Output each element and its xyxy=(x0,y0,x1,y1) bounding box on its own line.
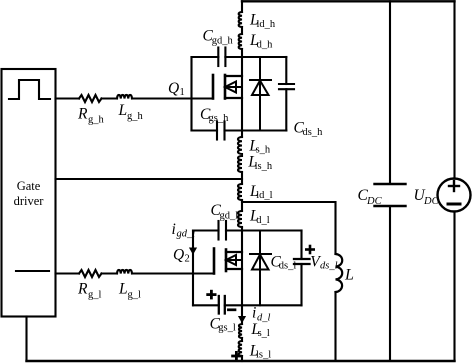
svg-text:Q: Q xyxy=(168,80,179,97)
inductor L (load) xyxy=(336,254,343,292)
svg-text:ls_l: ls_l xyxy=(256,349,271,360)
inductor L_s_l xyxy=(239,324,242,338)
svg-text:g_l: g_l xyxy=(128,290,142,301)
label C_gs_h xyxy=(200,106,229,124)
transistor Q2 (MOSFET) xyxy=(214,249,242,274)
label C_ds_h xyxy=(294,120,324,138)
gate driver box xyxy=(2,69,56,317)
label L_ls_l xyxy=(249,342,272,360)
label C_gd_h xyxy=(203,28,234,47)
Q1 drain-source vertical through cell xyxy=(241,57,243,131)
label U_DC xyxy=(414,187,440,207)
svg-text:R: R xyxy=(77,106,88,123)
capacitor C_gs_h xyxy=(217,122,225,140)
label L_d_h xyxy=(249,32,273,50)
svg-text:d_l: d_l xyxy=(256,215,270,226)
svg-text:ds_l: ds_l xyxy=(320,260,338,271)
inductor L_ls_l xyxy=(239,341,242,356)
label i_gd_l xyxy=(172,221,196,240)
inductor L_ls_h xyxy=(238,156,242,172)
label C_gs_l xyxy=(210,316,236,334)
label Q1 xyxy=(168,80,185,98)
low-level line symbol (low-side gate signal) xyxy=(16,270,49,272)
pulse waveform symbol (high-side gate signal) xyxy=(9,80,50,99)
body diode of Q2 xyxy=(250,231,271,306)
label L_ld_l xyxy=(249,183,273,201)
capacitor C_ds_h (right edge of Q1 cell) xyxy=(279,57,294,131)
svg-text:1: 1 xyxy=(180,87,185,98)
svg-text:gd_l: gd_l xyxy=(220,210,239,221)
polarity plus of V_ds_l xyxy=(306,246,313,253)
svg-text:gs_l: gs_l xyxy=(218,323,236,334)
inductor L_g_h xyxy=(117,95,132,99)
svg-text:ls_h: ls_h xyxy=(255,161,273,172)
svg-text:g_h: g_h xyxy=(88,115,105,126)
current arrow i_gd_l xyxy=(189,248,197,255)
wire xyxy=(241,356,243,361)
svg-text:L: L xyxy=(118,102,128,119)
inductor L_g_l xyxy=(117,270,132,274)
wire: drain chain top (top rail to L_ld_h) xyxy=(241,1,243,12)
label i_d_l xyxy=(252,305,271,324)
load branch: wire down from inductor L to bottom rail xyxy=(334,292,336,361)
inductor L_d_h xyxy=(239,34,242,49)
resistor R_g_l xyxy=(79,270,102,277)
Q2 cell: bottom rail with C_gs_l gap xyxy=(193,304,302,306)
svg-text:s_l: s_l xyxy=(258,328,270,339)
label C_gd_l xyxy=(211,202,239,221)
svg-text:Q: Q xyxy=(173,247,184,264)
svg-text:L: L xyxy=(118,281,128,298)
wire: mid wire (kelvin source return) gate driver to switch node xyxy=(56,178,243,180)
resistor R_g_h xyxy=(79,95,102,102)
plus sign of U_DC xyxy=(449,181,459,191)
wire: branch to load inductor xyxy=(242,202,336,254)
label Gate driver xyxy=(14,179,45,208)
svg-text:L: L xyxy=(344,267,354,284)
wire xyxy=(241,305,243,324)
Q2 drain-source vertical through cell xyxy=(241,231,243,306)
inductor L_s_h xyxy=(238,137,242,154)
capacitor C_DC branch wires xyxy=(389,1,391,361)
Q2 cell: left vertical xyxy=(192,231,194,306)
label R_g_l xyxy=(77,281,102,301)
label V_ds_l xyxy=(310,253,337,271)
label L_d_l xyxy=(249,208,270,226)
label C_DC xyxy=(358,187,383,207)
wire: switch node segment xyxy=(241,172,243,184)
svg-text:Gate: Gate xyxy=(17,179,41,193)
svg-text:g_h: g_h xyxy=(127,111,144,122)
svg-text:DC: DC xyxy=(423,196,440,207)
label L_g_h xyxy=(118,102,144,122)
svg-text:2: 2 xyxy=(185,253,190,264)
label L_s_l xyxy=(250,321,270,339)
wire xyxy=(241,131,243,138)
inductor L_ld_l xyxy=(238,184,242,200)
svg-text:i: i xyxy=(252,305,256,322)
minus sign of U_DC xyxy=(448,203,460,206)
polarity minus of C_gs_l xyxy=(228,308,235,311)
Q2 cell: top rail with C_gd_l gap xyxy=(193,229,302,231)
capacitor C_gd_l xyxy=(219,221,227,240)
label C_ds_l xyxy=(271,253,297,271)
label L_g_l xyxy=(118,281,141,301)
svg-text:ds_l: ds_l xyxy=(279,261,297,272)
label L_ld_h xyxy=(249,12,276,31)
svg-text:ld_l: ld_l xyxy=(256,190,272,201)
svg-text:R: R xyxy=(77,281,88,298)
inductor L_ld_h xyxy=(239,12,242,27)
Q1 cell: top rail with C_gd_h gap xyxy=(192,56,287,58)
capacitor C_ds_l (right edge of Q2 cell) xyxy=(294,231,310,306)
inductor L_d_l xyxy=(238,211,242,227)
label L_ls_h xyxy=(247,154,272,172)
voltage source U_DC branch wires xyxy=(453,1,455,361)
label R_g_h xyxy=(77,106,105,126)
wire xyxy=(241,49,243,57)
label L_s_h xyxy=(248,138,271,156)
svg-text:driver: driver xyxy=(14,194,45,208)
svg-text:gd_h: gd_h xyxy=(212,36,234,47)
svg-text:i: i xyxy=(172,221,176,238)
svg-text:ds_h: ds_h xyxy=(303,127,324,138)
svg-text:ld_h: ld_h xyxy=(257,19,276,30)
svg-text:s_h: s_h xyxy=(256,145,271,156)
capacitor C_gd_h xyxy=(218,48,225,67)
Q1 cell: bottom rail with C_gs_h gap xyxy=(192,129,287,131)
capacitor C_gs_l xyxy=(219,296,225,314)
svg-text:g_l: g_l xyxy=(88,290,102,301)
svg-text:gs_h: gs_h xyxy=(209,113,230,124)
wire xyxy=(241,227,243,231)
wire: low-side gate wire segments xyxy=(56,272,215,274)
polarity plus near bottom node xyxy=(233,352,241,359)
body diode of Q1 xyxy=(250,57,271,131)
wire xyxy=(241,338,243,341)
capacitor C_DC xyxy=(375,184,406,206)
svg-text:DC: DC xyxy=(366,196,383,207)
voltage source U_DC circle xyxy=(438,179,471,212)
wire xyxy=(241,27,243,34)
wire: top rail xyxy=(242,0,455,2)
Q1 cell: left vertical xyxy=(190,57,192,131)
wire: gate driver bottom to bottom rail xyxy=(25,317,27,362)
polarity plus of C_gs_l xyxy=(208,291,215,298)
transistor Q1 (MOSFET) xyxy=(213,75,242,99)
wire xyxy=(241,200,243,211)
label L (load) xyxy=(344,267,354,284)
current arrow i_d_l xyxy=(238,316,246,323)
label Q2 xyxy=(173,247,190,265)
svg-text:d_h: d_h xyxy=(257,40,274,51)
wire: high-side gate wire segments xyxy=(56,97,214,99)
wire: bottom rail xyxy=(27,360,455,362)
